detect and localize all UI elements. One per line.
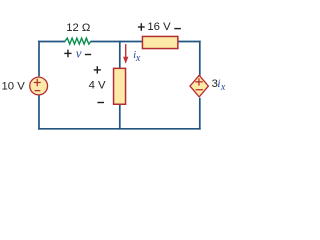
wire top-right segment (178, 41, 201, 43)
svg-text:12 Ω: 12 Ω (66, 22, 90, 34)
label 4 V (89, 79, 106, 91)
label 16 V (147, 21, 171, 33)
right wire upper (199, 41, 201, 76)
middle wire upper (119, 41, 121, 69)
right wire lower (199, 98, 201, 130)
label plus for 4 V (94, 66, 101, 73)
label minus for v (85, 54, 91, 56)
svg-text:x: x (220, 82, 226, 93)
label v (blue italic) (76, 45, 82, 60)
label minus for 4 V (97, 102, 104, 104)
svg-text:v: v (76, 45, 82, 60)
label plus for v (64, 50, 71, 58)
current arrow ix (123, 44, 128, 64)
svg-text:x: x (135, 53, 141, 64)
svg-text:4 V: 4 V (89, 79, 106, 91)
label ix (133, 49, 141, 64)
voltage source 10 V circle (30, 77, 48, 95)
wire top-middle segment (91, 41, 143, 43)
left wire lower (38, 95, 40, 129)
svg-text:16 V: 16 V (147, 21, 171, 33)
wire top-left segment (38, 41, 65, 43)
resistor 12 ohm zigzag (65, 38, 91, 44)
label minus for 16 V (174, 28, 181, 30)
svg-text:10 V: 10 V (2, 81, 26, 93)
label 12 Ω (66, 22, 90, 34)
dependent source 3ix diamond (190, 75, 208, 97)
label 10 V (2, 81, 26, 93)
label plus for 16 V (138, 23, 145, 31)
label 3ix (212, 76, 226, 93)
element 4 V rectangle (114, 68, 126, 104)
element 16 V rectangle (142, 36, 177, 48)
middle wire lower (119, 105, 121, 130)
bottom wire (38, 128, 200, 130)
left wire upper (38, 41, 40, 77)
